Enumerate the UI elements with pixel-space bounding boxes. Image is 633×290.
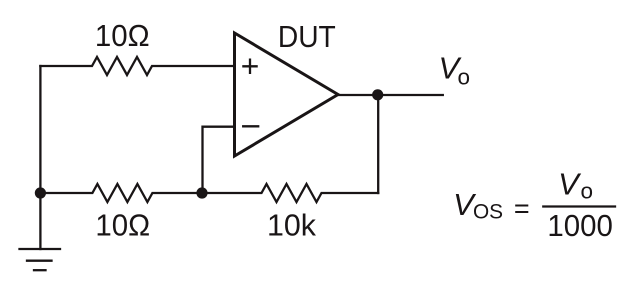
svg-text:o: o [580,178,593,203]
svg-text:DUT: DUT [278,20,336,55]
svg-text:=: = [514,194,530,224]
svg-text:10Ω: 10Ω [95,209,150,243]
svg-text:1000: 1000 [547,209,612,243]
svg-text:10k: 10k [267,207,317,242]
svg-text:V: V [558,167,582,202]
svg-text:OS: OS [473,200,503,223]
svg-text:o: o [458,64,471,89]
svg-text:10Ω: 10Ω [95,19,150,53]
